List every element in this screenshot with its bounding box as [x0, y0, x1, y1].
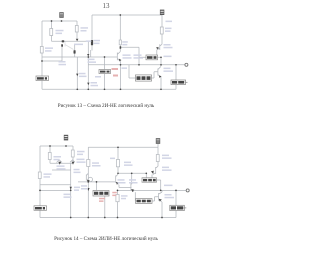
wire box2b exit	[104, 196, 106, 218]
wire boxA out stub	[157, 180, 161, 190]
junction dot	[119, 14, 121, 16]
wire splitter base link	[78, 181, 115, 183]
transistor VT4 arrow	[159, 75, 162, 78]
label VT3b left	[81, 185, 87, 187]
wire right rail fig13	[92, 14, 162, 16]
wire y173.3 collector link	[118, 172, 146, 174]
wire box2 stubs	[139, 56, 161, 58]
caption figure 13	[1, 103, 211, 109]
transistor VT4 body	[158, 66, 161, 77]
junction dot	[65, 145, 67, 147]
switch box J1	[36, 76, 49, 81]
label small x110	[110, 158, 115, 160]
label R1b	[54, 156, 62, 158]
junction dot	[76, 88, 78, 90]
label pink probe 1	[112, 68, 119, 70]
transistor VT1 body	[65, 41, 74, 49]
transistor VT5 arrow	[156, 47, 159, 50]
junction dot	[160, 88, 162, 90]
wire x158 drop	[157, 147, 159, 166]
junction dot	[41, 60, 43, 62]
label VD x88 upper	[86, 40, 92, 42]
box U2	[146, 55, 158, 60]
resistor R5b x118	[116, 160, 119, 167]
transistor VT3 body	[117, 52, 120, 62]
label R2 value	[81, 27, 89, 29]
junction dot	[39, 190, 41, 192]
junction dot	[117, 146, 119, 148]
transistor VT4b splitter body	[116, 174, 119, 184]
label VD x76	[79, 73, 86, 75]
junction dot	[131, 172, 133, 174]
box U2b	[93, 191, 109, 197]
wire bottom rail fig14	[40, 217, 176, 219]
label R2b	[77, 151, 85, 153]
label R5b value	[124, 162, 131, 164]
resistor R3b left rail	[38, 172, 41, 179]
diode blob x120	[120, 46, 122, 49]
wire R1b drop	[49, 146, 51, 163]
transistor VT1 arrow2	[74, 50, 76, 53]
wire output net fig14	[118, 189, 187, 191]
VCC symbol V2	[160, 10, 164, 15]
transistor VT3c body	[131, 182, 135, 201]
junction dot	[175, 190, 177, 192]
diode arrow VT1b	[58, 162, 61, 165]
junction dot	[160, 190, 162, 192]
box U3b	[136, 199, 153, 204]
wire bottom rail fig13	[42, 88, 176, 90]
wire emitter link fig14	[52, 169, 71, 171]
label pink x112	[112, 192, 117, 194]
transistor VT3c arrow	[131, 189, 134, 192]
transistor VT3b circle	[88, 177, 92, 181]
diode VD x76	[76, 74, 78, 77]
transistor VT6b body	[159, 190, 162, 217]
wire x117.5 resistor drop	[117, 190, 119, 217]
wire box3b link	[152, 197, 158, 201]
wire x162 right branch	[161, 15, 163, 44]
label VT3	[123, 54, 131, 56]
label pink box2b	[99, 198, 105, 200]
resistor R4b x88	[87, 160, 90, 167]
junction dot	[120, 88, 122, 90]
diode VD under R2	[76, 39, 79, 41]
junction dot	[87, 88, 89, 90]
wire input A fig14	[40, 184, 71, 186]
label VT4	[164, 68, 171, 70]
resistor R1	[50, 29, 53, 36]
label VD x120	[122, 41, 128, 43]
wire top rail fig13	[42, 20, 77, 22]
VCC2b stub	[157, 144, 159, 148]
wire x104.5 drop	[104, 57, 106, 89]
page number 13	[1, 3, 211, 10]
wire node P	[52, 40, 89, 42]
wire x161 vertical	[160, 57, 162, 89]
wire VT2 collector drop	[91, 15, 93, 51]
wire x120 collector	[119, 15, 121, 52]
wire x139 drop	[138, 47, 140, 65]
wire x176 drop	[175, 65, 177, 90]
junction dot	[146, 173, 148, 175]
transistor VT3b body	[86, 173, 88, 180]
junction dot	[117, 173, 119, 175]
resistor R2b	[71, 150, 74, 157]
label VD x70	[74, 169, 80, 171]
wire y47 interconnect	[120, 46, 139, 48]
wire input B	[42, 60, 62, 62]
diode VD x88 low	[87, 83, 89, 86]
wire left rail fig13	[41, 21, 43, 89]
wire output net y64.8	[88, 64, 186, 66]
wire VT3 emitter drop	[120, 62, 122, 90]
label below box U4	[95, 76, 101, 78]
diode x70.7	[70, 187, 72, 190]
output terminal fig14	[186, 189, 189, 192]
label VD x92	[94, 40, 101, 42]
caption figure 14	[1, 236, 211, 242]
diode body x120	[119, 40, 121, 45]
transistor VT5b body	[152, 166, 158, 178]
junction dot	[104, 56, 106, 58]
label x162 net	[166, 21, 173, 23]
junction dot	[51, 20, 53, 22]
wire R1 drop	[51, 21, 53, 41]
resistor R1b	[48, 153, 51, 160]
wire x70.7 vertical	[70, 163, 72, 217]
label key	[164, 56, 172, 58]
box U5 probe	[171, 80, 188, 85]
wire x88.3 branch fig14	[87, 147, 89, 217]
VCC symbol V2b	[156, 138, 160, 144]
label VT4b pair1	[118, 179, 125, 181]
junction dot	[87, 181, 89, 183]
label R6b	[162, 155, 169, 157]
diode VD x92	[91, 40, 93, 45]
junction dot	[87, 56, 89, 58]
resistor R2	[75, 26, 78, 33]
wire R2 drop	[76, 21, 78, 39]
wire right rail fig14	[88, 146, 158, 148]
label VT2 below wire	[88, 59, 95, 61]
label net out	[164, 185, 173, 187]
transistor VT2 arrow	[87, 54, 89, 56]
transistor VT2 body	[90, 50, 92, 57]
junction dot	[117, 217, 119, 219]
junction dot	[161, 217, 163, 219]
box U5b probe	[170, 205, 187, 210]
VCC symbol V1b	[64, 135, 68, 141]
junction dot	[117, 190, 119, 192]
junction dot	[120, 64, 122, 66]
wire left rail fig14	[39, 146, 41, 218]
transistor VT2b body	[70, 160, 75, 162]
junction dot	[104, 217, 106, 219]
junction dot	[70, 190, 72, 192]
label R4b value	[92, 162, 99, 164]
wire x146.3 drop	[145, 173, 147, 178]
diode arrow VT2b	[72, 162, 75, 165]
wire R2b drop	[72, 146, 74, 163]
transistor VT3b arrow	[87, 180, 90, 183]
junction dot	[138, 64, 140, 66]
box U3	[136, 75, 152, 81]
wire VT4 base path	[129, 65, 158, 78]
wire VT1 emitter1	[61, 45, 63, 61]
box UAb	[142, 178, 157, 182]
wire base link	[50, 162, 73, 164]
transistor VT1b body	[57, 160, 63, 163]
switch box J1b	[34, 206, 47, 211]
label VD x70 lower	[74, 187, 80, 189]
wire x77.3 drop to rail	[76, 57, 78, 89]
transistor VT6b arrow	[159, 199, 162, 202]
label VD6	[134, 54, 142, 56]
junction dot	[104, 88, 106, 90]
wire top rail fig14	[40, 145, 73, 147]
junction dot	[49, 145, 51, 147]
wire VT1 emitter2	[74, 44, 76, 57]
wire x176 drop fig14	[175, 190, 177, 217]
labels fig13	[45, 21, 173, 87]
label R5 value	[165, 28, 172, 30]
label VD x88	[91, 82, 98, 84]
label R1 value	[56, 30, 64, 32]
wire input A	[42, 56, 117, 58]
junction dot	[160, 56, 162, 58]
junction dot	[70, 217, 72, 219]
transistor VT4b splitter arrow	[116, 182, 119, 185]
label R3 value	[45, 47, 53, 49]
resistor R7b x117.5	[116, 195, 119, 202]
label VT2b	[77, 159, 85, 161]
transistor VT5 body	[157, 44, 162, 55]
label VT4b pair2	[129, 179, 136, 181]
label R7b right	[121, 195, 128, 197]
box U4	[99, 70, 111, 74]
resistor R6b x158	[156, 155, 159, 162]
wire x96.5 drop	[96, 182, 98, 191]
label VT1	[59, 61, 66, 63]
junction dot	[61, 20, 63, 22]
VCC symbol V1	[59, 12, 63, 18]
transistor VT1 arrow1	[62, 40, 64, 42]
resistor R3 left rail	[40, 47, 43, 54]
resistor R5	[160, 27, 163, 34]
label R3b	[44, 173, 52, 175]
wire VD chain vertical	[87, 41, 89, 89]
label VT5	[164, 44, 171, 46]
wire input B fig14	[40, 189, 71, 191]
diode x88.3 low	[87, 188, 90, 191]
junction dot	[96, 181, 98, 183]
wire emitter jog	[119, 185, 132, 188]
wire x131.7 drop	[131, 173, 133, 183]
wire x118 branch	[117, 147, 119, 173]
label VT2 below	[74, 44, 83, 46]
label VT1b	[57, 165, 65, 167]
junction dot	[175, 64, 177, 66]
transistor VT1 emitter tick	[61, 44, 63, 47]
transistor VT3 arrow	[119, 59, 122, 62]
junction dot	[160, 64, 162, 66]
junction dot	[87, 217, 89, 219]
output terminal fig13	[185, 63, 188, 66]
transistor VT5b arrow	[151, 171, 154, 174]
label VT5b	[162, 167, 169, 169]
label pink probe 2	[113, 75, 118, 77]
label blue near VT3	[122, 67, 128, 69]
labels fig14	[44, 151, 175, 200]
label VD C4	[64, 194, 71, 196]
label VT6b	[165, 194, 172, 196]
